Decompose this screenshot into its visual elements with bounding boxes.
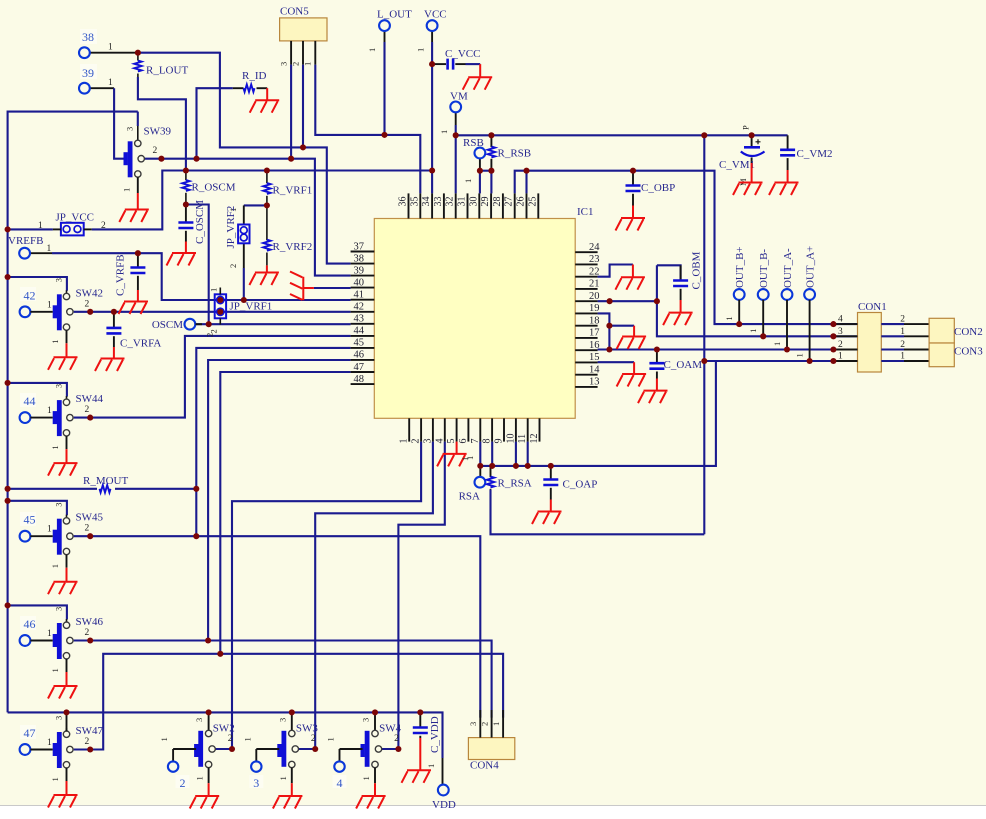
- svg-text:3: 3: [422, 439, 433, 444]
- switch SW44: [30, 384, 103, 450]
- svg-text:1: 1: [426, 764, 436, 768]
- svg-text:24: 24: [589, 242, 600, 253]
- port 38: [79, 29, 113, 58]
- svg-text:9: 9: [494, 439, 505, 444]
- IC1 pin 19 stub: [575, 303, 599, 314]
- svg-text:JP_VCC: JP_VCC: [56, 212, 95, 224]
- port VM: [439, 91, 468, 135]
- wire VDD row: [8, 712, 443, 758]
- svg-text:R_LOUT: R_LOUT: [146, 65, 188, 77]
- capacitor C_VM1 polarized: [719, 125, 765, 186]
- wires CON1 to CON2 CON3: [881, 315, 929, 362]
- wire SW44 top feed: [8, 383, 67, 397]
- svg-text:L_OUT: L_OUT: [377, 9, 412, 21]
- junction SW39 output: [158, 156, 164, 162]
- svg-text:1: 1: [108, 78, 113, 88]
- svg-text:R_ID: R_ID: [242, 70, 267, 82]
- IC1 pin 6 stub: [458, 418, 469, 443]
- port 4: [333, 761, 347, 790]
- svg-text:1: 1: [748, 329, 758, 333]
- IC1 pin 10 stub: [505, 418, 516, 443]
- IC1 pin 35 stub: [409, 193, 420, 218]
- svg-text:1: 1: [361, 776, 371, 780]
- svg-text:R_MOUT: R_MOUT: [83, 475, 129, 487]
- svg-text:SW44: SW44: [76, 393, 104, 405]
- svg-text:1: 1: [47, 738, 52, 748]
- IC1 pin 15 stub: [575, 352, 599, 363]
- junction pin16 on riser: [606, 346, 612, 352]
- junction SW46 output: [87, 637, 93, 643]
- IC1 pin 24 stub: [575, 242, 600, 253]
- svg-text:SW47: SW47: [76, 725, 104, 737]
- connector CON3: [929, 343, 983, 367]
- IC1 pin 17 stub: [575, 328, 599, 339]
- port 42: [20, 287, 36, 317]
- svg-text:2: 2: [85, 299, 90, 309]
- svg-text:20: 20: [589, 291, 600, 302]
- wire W2 vertical VM row to RSA row: [703, 135, 705, 534]
- wire SW39 output row to pin39: [144, 159, 350, 276]
- ground for pin5: [437, 442, 470, 467]
- port 45: [20, 512, 36, 542]
- junction R_ID on SW39 row: [193, 156, 199, 162]
- svg-text:1: 1: [724, 316, 734, 320]
- wire RSA port stub: [479, 466, 481, 477]
- wire pin16 row to OUT_A- and CON1 pin2: [598, 348, 858, 350]
- svg-text:44: 44: [354, 326, 365, 337]
- svg-text:33: 33: [433, 197, 444, 207]
- wire SW4 riser to pin4: [382, 442, 445, 749]
- svg-text:2: 2: [101, 221, 106, 231]
- wire pin19 pin18 pin16 vertical: [598, 313, 610, 349]
- port OUT_B-: [748, 249, 770, 337]
- IC1 pin 11 stub: [517, 418, 528, 443]
- wire OSCM row to pin43: [196, 323, 351, 325]
- junction pin10 drop: [513, 463, 519, 469]
- svg-text:1: 1: [122, 188, 132, 192]
- svg-text:35: 35: [409, 197, 420, 207]
- svg-text:R_OSCM: R_OSCM: [192, 182, 236, 194]
- IC1 pin 13 stub: [575, 377, 599, 388]
- svg-text:2: 2: [180, 776, 186, 790]
- port 47: [20, 725, 36, 755]
- ground for SW2: [190, 783, 220, 808]
- svg-text:26: 26: [516, 197, 527, 207]
- svg-text:28: 28: [492, 197, 503, 207]
- svg-text:3: 3: [468, 722, 478, 726]
- svg-text:SW39: SW39: [144, 126, 172, 138]
- svg-text:8: 8: [482, 439, 493, 444]
- port 46: [20, 616, 36, 646]
- ground for C_VRFB: [119, 290, 149, 314]
- svg-text:1: 1: [399, 439, 410, 444]
- switch SW46: [30, 607, 103, 673]
- svg-text:1: 1: [50, 777, 60, 781]
- ground for SW4: [356, 783, 386, 808]
- IC1 pin 43 stub: [351, 314, 375, 325]
- ground for C_VM1: [733, 163, 763, 195]
- svg-text:SW4: SW4: [379, 723, 402, 735]
- svg-text:32: 32: [445, 197, 456, 207]
- junction pin11 drop: [525, 463, 531, 469]
- junction CON5 pin3 on SW39 row: [288, 156, 294, 162]
- svg-text:34: 34: [421, 197, 432, 207]
- junction OUT_B+ port: [736, 321, 742, 327]
- svg-text:47: 47: [24, 726, 36, 740]
- wire vertical OUT_A+ row to RSA row: [480, 361, 716, 466]
- svg-text:3: 3: [54, 607, 64, 611]
- svg-text:2: 2: [85, 737, 90, 747]
- svg-text:27: 27: [504, 197, 515, 207]
- svg-text:45: 45: [24, 513, 36, 527]
- wire CON5 pin1 to L_OUT row and pin35: [315, 65, 420, 194]
- svg-text:43: 43: [354, 314, 365, 325]
- junction C_OBP: [630, 168, 636, 174]
- svg-text:37: 37: [354, 241, 365, 252]
- capacitor C_OBP: [626, 171, 676, 206]
- IC1 pin 39 stub: [351, 265, 375, 276]
- port VREFB: [8, 235, 52, 259]
- IC1 pin 46 stub: [351, 350, 375, 361]
- IC1 pin 23 stub: [575, 254, 599, 265]
- wire pin10 drop: [515, 442, 517, 466]
- IC1 pin 18 stub: [575, 316, 599, 327]
- IC1 pin 16 stub: [575, 340, 599, 351]
- svg-text:1: 1: [159, 737, 169, 741]
- junction CON5 pin2 on pin38 net: [300, 144, 306, 150]
- junction pin20 stub: [607, 298, 613, 304]
- wire SW42 top feed: [8, 277, 67, 291]
- svg-text:1: 1: [367, 48, 377, 52]
- svg-text:R_VRF1: R_VRF1: [273, 185, 313, 197]
- junction SW47 output: [87, 746, 93, 752]
- svg-text:46: 46: [24, 617, 36, 631]
- resistor R_OSCM: [182, 171, 236, 205]
- svg-text:2: 2: [85, 405, 90, 415]
- svg-text:C_VCC: C_VCC: [445, 48, 480, 60]
- svg-text:C_VRFB: C_VRFB: [115, 254, 127, 296]
- svg-text:3: 3: [54, 384, 64, 388]
- svg-text:38: 38: [82, 30, 94, 44]
- junction bus/JP_VCC: [5, 226, 11, 232]
- ground for C_VCC: [463, 64, 493, 90]
- svg-text:44: 44: [24, 394, 36, 408]
- svg-text:1: 1: [209, 288, 219, 292]
- IC1 pin 47 stub: [351, 362, 375, 373]
- junction SW4 output: [395, 746, 401, 752]
- svg-text:1: 1: [900, 327, 905, 337]
- junction bus/SW44 top: [5, 380, 11, 386]
- junction SW44 output: [87, 415, 93, 421]
- svg-text:3: 3: [361, 718, 371, 722]
- svg-text:1: 1: [463, 179, 473, 183]
- svg-text:3: 3: [279, 62, 289, 66]
- capacitor C_VRFB: [115, 253, 146, 296]
- svg-text:SW42: SW42: [76, 287, 104, 299]
- junction JP_VRF1 pin2: [217, 309, 223, 315]
- junction C_VDD on VDD row: [417, 709, 423, 715]
- junction pin26 riser: [523, 168, 529, 174]
- svg-text:3: 3: [838, 327, 843, 337]
- svg-text:12: 12: [529, 434, 540, 444]
- junction RSB port: [477, 168, 483, 174]
- svg-text:VCC: VCC: [424, 9, 447, 21]
- svg-text:C_OSCM: C_OSCM: [194, 200, 206, 244]
- svg-text:SW45: SW45: [76, 512, 104, 524]
- svg-text:1: 1: [491, 722, 501, 726]
- junction CON1 pin3: [830, 333, 836, 339]
- resistor R_MOUT: [83, 475, 129, 493]
- svg-text:2: 2: [85, 524, 90, 534]
- svg-text:3: 3: [54, 278, 64, 282]
- svg-text:CON5: CON5: [280, 6, 309, 18]
- junction CON1 pin4: [830, 321, 836, 327]
- IC1 pin 48 stub: [351, 374, 375, 385]
- svg-text:3: 3: [54, 502, 64, 506]
- ground for SW47: [48, 781, 78, 808]
- junction C_OBM branch: [654, 298, 660, 304]
- junction C_VCC on VCC line: [429, 61, 435, 67]
- ground for pin22: [598, 265, 645, 290]
- ground for SW3: [273, 783, 303, 808]
- svg-text:VM: VM: [450, 91, 468, 103]
- junction SW2 top on VDD row: [206, 709, 212, 715]
- junction JP_VRF1 pin1: [217, 297, 223, 303]
- svg-text:RSB: RSB: [463, 137, 484, 149]
- port RSA: [459, 456, 486, 503]
- junction bus/R_MOUT: [5, 486, 11, 492]
- svg-text:1: 1: [47, 406, 52, 416]
- junction pin7/RSA: [477, 463, 483, 469]
- junction R_MOUT/pin45 net: [193, 486, 199, 492]
- svg-text:R_VRF2: R_VRF2: [273, 241, 313, 253]
- svg-text:1: 1: [47, 525, 52, 535]
- svg-text:19: 19: [589, 303, 600, 314]
- svg-text:1: 1: [47, 244, 52, 254]
- port OUT_B+: [724, 246, 746, 324]
- svg-text:CON3: CON3: [954, 346, 983, 358]
- svg-text:SW3: SW3: [296, 723, 319, 735]
- junction SW42 output: [87, 309, 93, 315]
- capacitor C_VRFA: [106, 312, 161, 350]
- IC1 pin 45 stub: [351, 338, 375, 349]
- wire SW47 top stub: [66, 712, 68, 731]
- IC1 pin 31 stub: [457, 193, 468, 218]
- svg-text:2: 2: [205, 333, 215, 337]
- svg-text:36: 36: [398, 197, 409, 207]
- connector CON5: [279, 6, 328, 67]
- svg-text:C_VM2: C_VM2: [797, 148, 833, 160]
- svg-text:45: 45: [354, 338, 365, 349]
- svg-text:SW46: SW46: [76, 616, 104, 628]
- junction SW3 output: [312, 746, 318, 752]
- connector CON2: [929, 318, 983, 343]
- IC1 pin 3 stub: [422, 418, 433, 443]
- svg-text:46: 46: [354, 350, 365, 361]
- ground for SW46: [48, 672, 78, 699]
- wire SW46 output row to CON4 pin2 with pin46 branch: [74, 360, 492, 718]
- junction VM port on VM row: [453, 132, 459, 138]
- wire R_ID link to SW39 row: [197, 88, 233, 159]
- port OUT_A-: [772, 248, 794, 350]
- svg-text:2: 2: [228, 734, 233, 744]
- resistor R_VRF2: [263, 240, 312, 266]
- svg-text:1: 1: [50, 340, 60, 344]
- switch SW4: [326, 712, 402, 783]
- junction OSCM port: [206, 321, 212, 327]
- IC1 pin 12 stub: [529, 418, 540, 443]
- capacitor C_OBM: [673, 251, 702, 300]
- ground for R_VRF2: [249, 265, 279, 285]
- svg-text:13: 13: [589, 377, 600, 388]
- capacitor C_OAM: [649, 350, 702, 379]
- svg-text:42: 42: [24, 288, 36, 302]
- IC1 pin 36 stub: [398, 193, 409, 218]
- IC1 pin 20 stub: [575, 291, 599, 302]
- svg-text:1: 1: [772, 342, 782, 346]
- wire SW46 top feed: [8, 605, 67, 619]
- capacitor C_OAP: [543, 466, 597, 500]
- jumper JP_VCC: [38, 212, 106, 236]
- wire OUT_A+ row from W2 vertical to CON1 pin1: [704, 360, 857, 362]
- port 3: [249, 761, 263, 790]
- svg-text:47: 47: [354, 362, 365, 373]
- IC1 pin 7 stub: [470, 418, 481, 443]
- svg-text:2: 2: [311, 734, 316, 744]
- svg-text:C_OBM: C_OBM: [691, 251, 703, 289]
- svg-text:16: 16: [589, 340, 600, 351]
- svg-text:7: 7: [470, 439, 481, 444]
- svg-text:SW2: SW2: [213, 723, 235, 735]
- ground for C_OSCM: [167, 242, 197, 266]
- ground for C_OBP: [616, 206, 646, 231]
- wire SW2 riser to pin2: [216, 442, 422, 749]
- svg-text:39: 39: [354, 265, 365, 276]
- svg-text:C_VRFA: C_VRFA: [120, 338, 161, 350]
- svg-text:1: 1: [326, 737, 336, 741]
- switch SW3: [242, 712, 318, 783]
- port OUT_A+: [795, 246, 817, 361]
- svg-text:IC1: IC1: [577, 206, 594, 218]
- ground for C_VRFA: [95, 347, 125, 371]
- junction bus/SW45 top: [5, 498, 11, 504]
- wire JP_VRF2 pin1 to R_VRF1 bottom: [244, 205, 267, 224]
- ground for C_VDD: [402, 738, 432, 783]
- IC1 pin 40 stub: [351, 277, 375, 288]
- ground for pin15: [617, 362, 647, 386]
- switch SW42: [30, 278, 103, 344]
- junction SW45 output: [87, 533, 93, 539]
- svg-text:JP_VRF1: JP_VRF1: [230, 301, 273, 313]
- IC1 pin 8 stub: [482, 418, 493, 443]
- svg-text:1: 1: [38, 221, 43, 231]
- capacitor C_OSCM: [178, 200, 206, 244]
- svg-text:2: 2: [153, 146, 158, 156]
- op-amp IC1 body: [374, 206, 593, 418]
- port 2: [168, 761, 190, 790]
- svg-text:5: 5: [446, 439, 457, 444]
- ground for R_ID: [250, 88, 280, 113]
- svg-text:2: 2: [838, 340, 843, 350]
- svg-text:2: 2: [228, 264, 238, 268]
- junction L_OUT port: [381, 132, 387, 138]
- svg-text:1: 1: [242, 737, 252, 741]
- wire SW42 output row to pin42: [74, 311, 351, 313]
- junction port38/R_LOUT: [135, 50, 141, 56]
- svg-text:C_VM1: C_VM1: [719, 159, 755, 171]
- junction JP_VRF2 pin2: [241, 297, 247, 303]
- IC1 pin 25 stub: [527, 193, 538, 218]
- junction R_VRF1 top on VCC row: [264, 167, 270, 173]
- svg-text:VDD: VDD: [432, 799, 456, 811]
- wire JP_VRF2 pin2 down to pin41 row: [243, 243, 245, 300]
- wire pin7 drop: [479, 442, 481, 466]
- wire pin15 to ground: [598, 361, 635, 363]
- junction R_RSB top on VM row: [488, 132, 494, 138]
- junction SW2 output: [229, 746, 235, 752]
- IC1 pin 44 stub: [351, 326, 375, 337]
- IC1 pin 27 stub: [504, 193, 515, 218]
- svg-text:1: 1: [465, 456, 475, 460]
- svg-text:17: 17: [589, 328, 600, 339]
- IC1 pin 9 stub: [494, 418, 505, 443]
- IC1 pin 4 stub: [434, 418, 445, 443]
- connector CON4: [468, 710, 515, 772]
- switch SW2: [159, 712, 235, 783]
- resistor R_ID: [233, 70, 267, 92]
- junction SW4 top on VDD row: [372, 709, 378, 715]
- svg-text:30: 30: [468, 197, 479, 207]
- wire SW3 riser to pin3: [299, 442, 433, 749]
- wire SW44 output to pin44: [74, 336, 351, 418]
- wire R_RSA bottom row to W2 vertical: [491, 490, 705, 535]
- svg-text:3: 3: [253, 776, 259, 790]
- svg-text:11: 11: [517, 434, 528, 444]
- junction VCC/pin34: [429, 167, 435, 173]
- junction W2 vertical on VM row: [701, 132, 707, 138]
- svg-text:1: 1: [50, 564, 60, 568]
- svg-text:3: 3: [125, 127, 135, 131]
- wire VCC vertical to pin34: [431, 31, 433, 193]
- IC1 pin 33 stub: [433, 193, 444, 218]
- capacitor C_VCC: [435, 48, 480, 70]
- jumper JP_VRF2: [225, 206, 250, 268]
- junction R_OSCM top on VCC row: [183, 167, 189, 173]
- switch SW47: [30, 716, 103, 782]
- junction CON1 pin1: [830, 358, 836, 364]
- IC1 pin 14 stub: [575, 365, 600, 376]
- port L_OUT: [367, 9, 412, 53]
- IC1 pin 30 stub: [468, 193, 479, 218]
- svg-text:2: 2: [394, 734, 399, 744]
- svg-text:10: 10: [505, 434, 516, 444]
- wire R_OSCM bottom to OSCM node: [186, 205, 209, 325]
- wire R_MOUT row: [8, 488, 197, 490]
- ground for C_OBM: [663, 300, 693, 325]
- wire port39 down to SW39: [90, 88, 124, 159]
- wire RSB port stub and bridge to pin30: [480, 158, 492, 193]
- switch SW39: [122, 112, 172, 193]
- IC1 pin 28 stub: [492, 193, 503, 218]
- svg-text:OSCM: OSCM: [152, 319, 183, 331]
- jumper JP_VRF1: [209, 288, 273, 334]
- resistor R_RSB: [488, 135, 531, 170]
- wire C_VM2 drop: [787, 135, 789, 149]
- port RSB: [463, 137, 485, 183]
- junction bus/SW42 top: [5, 274, 11, 280]
- wire pin11 drop: [527, 442, 529, 466]
- wire VM vertical to pin32 and VM row: [456, 112, 788, 193]
